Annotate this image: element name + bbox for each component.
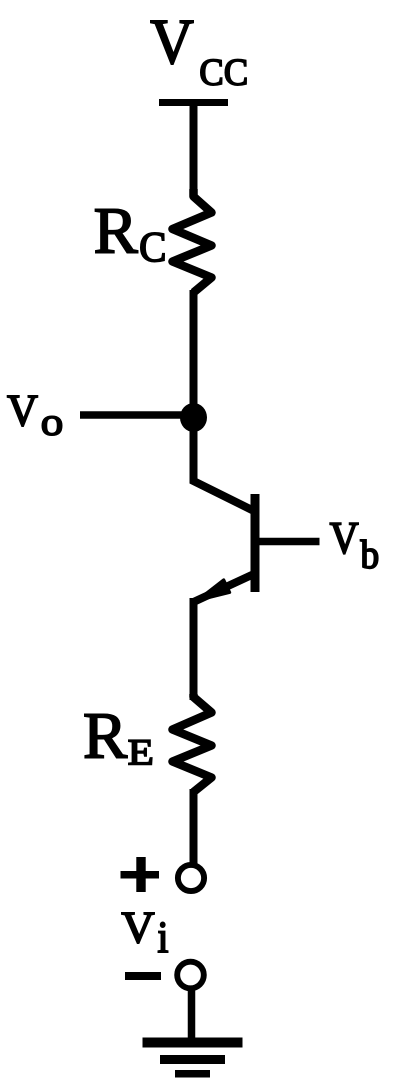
transistor Q1 emitter arrow [197,580,230,601]
terminal minus circle [177,962,204,989]
minus sign [125,972,161,980]
label VCC subscript C1 [201,59,222,85]
transistor Q1 emitter [194,574,256,603]
wire minus terminal to ground [188,990,196,1039]
wire base lead [255,538,320,546]
label RE subscript E [129,740,152,764]
terminal plus circle [178,865,204,891]
label vi subscript i [158,922,167,952]
label VCC subscript C2 [225,59,246,85]
label RE letter R [85,714,127,757]
label vo letter v [8,396,38,426]
label vb subscript b [360,540,377,568]
label VCC letter V [151,21,193,64]
wire collector supply [190,99,198,196]
wire emitter to RE [190,598,198,700]
transistor Q1 base bar [251,494,260,592]
resistor RE [173,694,212,792]
wire RC to collector [194,290,256,512]
label RC subscript C [141,233,164,262]
label RC letter R [95,209,137,252]
wire RE to plus terminal [190,789,198,864]
plus sign [121,857,160,892]
label vo subscript o [42,416,61,435]
label vi letter V [122,913,154,943]
node vo junction dot [180,403,207,432]
power rail VCC [159,99,228,106]
label vb letter v [330,523,358,554]
wire node vo [80,411,194,419]
resistor RC [173,189,212,293]
ground [143,1043,243,1074]
